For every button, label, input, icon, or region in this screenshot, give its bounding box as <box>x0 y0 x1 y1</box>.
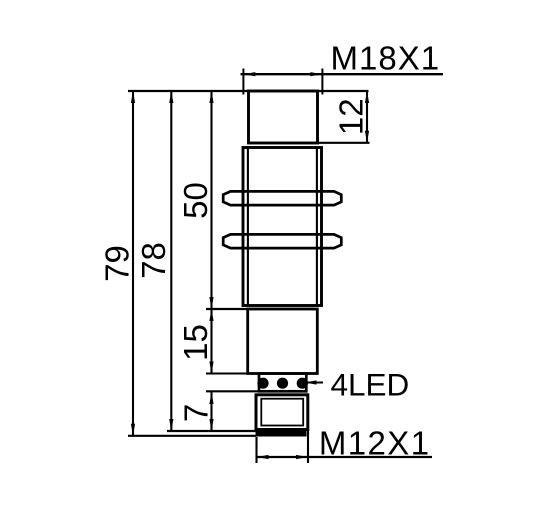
M18 arrow right <box>310 72 322 76</box>
inner body line left <box>247 148 249 306</box>
M18 left extension line <box>242 69 244 95</box>
svg-text:50: 50 <box>177 182 214 219</box>
dimension line 7 <box>210 392 212 431</box>
dimension line M18 width with underline of label <box>241 73 444 75</box>
M12 dimension line with label underline <box>257 456 433 458</box>
dimension line 12 <box>366 91 368 143</box>
sensor head barrel (12mm section) <box>249 91 318 143</box>
svg-text:78: 78 <box>135 242 172 279</box>
svg-text:7: 7 <box>177 404 214 422</box>
housing 15mm section <box>248 309 318 374</box>
LED dot 2 <box>277 378 288 389</box>
svg-text:4LED: 4LED <box>331 367 410 403</box>
dimension line 79 <box>132 91 134 436</box>
svg-text:79: 79 <box>98 245 135 282</box>
LED dot 1 <box>257 378 268 389</box>
79 bottom extension line <box>128 435 256 437</box>
78 bottom extension line <box>167 430 257 432</box>
hex nut flange ring 2 <box>223 234 341 248</box>
LED band bottom extension line (7 top) <box>206 390 259 392</box>
svg-text:M18X1: M18X1 <box>331 40 441 77</box>
M12 connector outer body <box>256 395 308 430</box>
svg-text:M12X1: M12X1 <box>319 425 431 462</box>
threaded body wide section (50mm) <box>243 148 322 306</box>
connector thread end black band <box>256 430 307 436</box>
svg-text:12: 12 <box>332 98 369 135</box>
dimension line 50 <box>210 91 212 309</box>
15-section top edge / 50 bottom extension line <box>206 308 318 310</box>
M18 right extension line <box>321 69 323 95</box>
12 bottom extension line <box>316 142 370 144</box>
LED dot 3 <box>297 378 308 389</box>
15 bottom extension line <box>206 372 249 374</box>
LED ring band <box>259 374 306 392</box>
inner body line right <box>316 148 318 306</box>
svg-text:15: 15 <box>177 324 214 361</box>
dimension line 78 <box>170 91 172 431</box>
M12 connector inner body <box>261 399 303 426</box>
M12 left extension line <box>255 437 257 463</box>
4LED leader arrow <box>305 380 317 384</box>
top extension line (sensor face level, shared by 79/78/50/12 dims) <box>128 90 369 92</box>
12 arrow down <box>365 131 369 143</box>
dimension line 15 <box>210 309 212 374</box>
M18 arrow left <box>243 72 255 76</box>
4LED leader line <box>306 382 323 384</box>
M12 arrow left <box>257 455 269 459</box>
M12 right extension line <box>307 430 309 464</box>
12 arrow up <box>365 91 369 103</box>
hex nut flange ring 1 <box>223 191 341 205</box>
M12 arrow right <box>296 455 308 459</box>
